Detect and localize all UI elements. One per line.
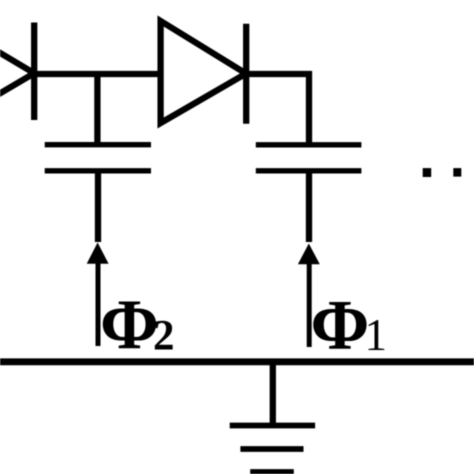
capacitor C1 top plate xyxy=(256,142,362,147)
clock phase arrow tail (Φ1) xyxy=(307,262,312,347)
wire capacitor C2 bottom lead xyxy=(95,172,101,242)
diode D2 triangle outline xyxy=(161,21,246,123)
label Φ2 xyxy=(100,286,175,364)
wire capacitor C1 bottom lead xyxy=(306,172,312,242)
capacitor C2 bottom plate xyxy=(45,168,151,173)
ground bus wire xyxy=(0,358,474,365)
label Φ1 xyxy=(311,287,388,365)
clock arrowhead Φ2 xyxy=(87,243,109,264)
svg-text:Φ: Φ xyxy=(100,286,159,364)
diode D2 cathode bar xyxy=(243,24,249,124)
wire node to capacitor C2 top xyxy=(94,74,100,143)
diode D1 (left, partially cut at edge) cathode bar xyxy=(31,23,37,121)
ground bar 2 xyxy=(240,446,303,452)
wire D2 cathode to capacitor C1 top xyxy=(246,74,309,144)
ellipsis dot 1 xyxy=(423,168,432,177)
clock phase arrow tail (Φ2) xyxy=(96,262,101,346)
ground bar 3 xyxy=(250,469,294,474)
wire D1 cathode to D2 anode xyxy=(31,71,163,77)
svg-text:2: 2 xyxy=(153,313,175,360)
capacitor C2 top plate xyxy=(45,142,151,147)
ground stem wire xyxy=(270,361,276,425)
ellipsis dot 2 xyxy=(453,168,461,177)
clock arrowhead Φ1 xyxy=(298,244,320,265)
svg-text:1: 1 xyxy=(365,310,388,360)
capacitor C1 bottom plate xyxy=(256,168,362,173)
svg-text:Φ: Φ xyxy=(311,287,370,365)
ground bar 1 xyxy=(230,423,315,429)
diode D1 triangle (anode, off-canvas base) xyxy=(0,22,34,124)
